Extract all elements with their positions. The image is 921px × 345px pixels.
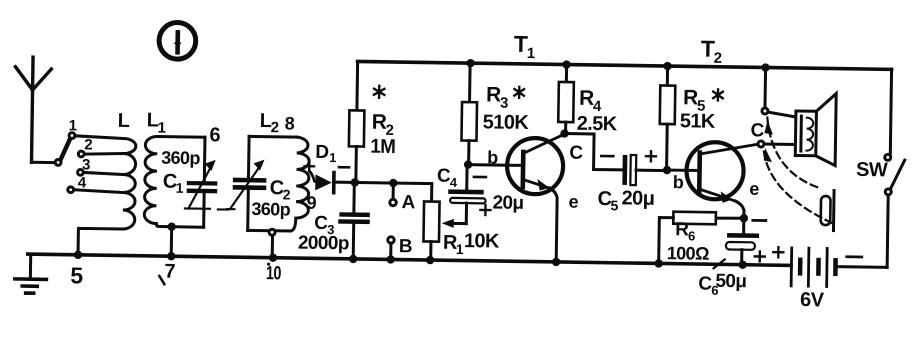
wire speaker branch xyxy=(758,63,797,147)
svg-text:2: 2 xyxy=(271,119,279,136)
minus mark (C4) xyxy=(474,176,486,179)
switch S1 pole contact xyxy=(55,159,61,165)
capacitor C5 xyxy=(622,155,667,186)
svg-text:5: 5 xyxy=(70,262,83,288)
figure number circle 1 xyxy=(159,22,196,59)
svg-text:3: 3 xyxy=(500,95,508,112)
plus mark (D1) xyxy=(304,161,314,171)
plus mark (C4) xyxy=(480,205,490,215)
node 10 xyxy=(269,253,278,262)
svg-text:51K: 51K xyxy=(680,110,716,133)
svg-text:1: 1 xyxy=(456,241,464,257)
svg-text:510K: 510K xyxy=(483,111,530,134)
svg-text:100Ω: 100Ω xyxy=(667,243,710,264)
switch S1 contact 4 xyxy=(68,187,74,193)
resistor R2 xyxy=(348,61,365,182)
wire C2 L2 bottom xyxy=(248,229,290,233)
plus mark (battery) xyxy=(773,247,783,257)
svg-text:D: D xyxy=(315,142,328,163)
switch SW xyxy=(883,69,906,267)
switch S1 contact 1 xyxy=(69,133,75,139)
svg-text:b: b xyxy=(487,147,498,167)
wire L1 top xyxy=(157,135,204,139)
wire C2 L2 top xyxy=(249,135,297,139)
minus mark (C6) xyxy=(753,219,766,222)
wire tap 1 xyxy=(75,136,124,139)
svg-text:9: 9 xyxy=(306,193,316,213)
wire tap 2 xyxy=(84,153,124,155)
svg-text:2.5K: 2.5K xyxy=(577,113,618,136)
ground symbol xyxy=(15,254,47,293)
svg-text:20μ: 20μ xyxy=(492,192,523,213)
coil L2 xyxy=(290,137,309,231)
svg-text:R: R xyxy=(372,111,387,134)
capacitor C1 variable xyxy=(185,159,218,208)
ganged capacitor dashed link xyxy=(218,208,228,210)
svg-text:SW: SW xyxy=(856,159,888,181)
capacitor C4 xyxy=(448,164,486,224)
wire to node 7 xyxy=(170,227,173,256)
svg-text:e: e xyxy=(749,179,759,199)
wire L1 bottom xyxy=(156,223,204,227)
svg-text:50μ: 50μ xyxy=(715,271,746,292)
plus mark (C5) xyxy=(646,151,656,161)
svg-text:R: R xyxy=(683,86,698,109)
resistor R6 xyxy=(654,211,744,269)
terminal circle on bottom wire xyxy=(269,229,275,235)
svg-text:6: 6 xyxy=(688,228,695,243)
earphone xyxy=(821,190,834,230)
minus mark (D1) xyxy=(339,166,349,169)
plus mark (C6) xyxy=(755,251,765,261)
transistor T2 xyxy=(686,142,758,223)
wire base T2 xyxy=(667,169,698,172)
wire L1 right side lower xyxy=(202,193,206,227)
svg-text:C: C xyxy=(569,143,583,164)
coil L1 xyxy=(144,136,157,223)
svg-text:B: B xyxy=(399,236,412,257)
capacitor C2 variable xyxy=(227,159,267,210)
svg-text:2: 2 xyxy=(714,50,722,67)
capacitor C6 xyxy=(726,218,760,269)
svg-text:A: A xyxy=(401,192,415,213)
svg-text:8: 8 xyxy=(285,113,295,133)
diode D1 xyxy=(315,172,334,192)
svg-text:2000p: 2000p xyxy=(298,233,349,255)
svg-text:1: 1 xyxy=(527,45,535,62)
resistor R5 xyxy=(659,62,676,175)
dashed earphone connection arrows xyxy=(763,118,837,225)
svg-text:1M: 1M xyxy=(370,136,395,158)
wire detector node xyxy=(336,182,432,183)
resistor R1 potentiometer xyxy=(423,183,440,264)
capacitor C3 xyxy=(338,182,371,263)
speaker LS xyxy=(795,93,836,166)
minus mark (C5) xyxy=(601,155,613,158)
wire L bottom to node 5 xyxy=(78,228,123,253)
transistor T1 xyxy=(506,133,565,266)
switch S1 contact 3 xyxy=(78,169,84,175)
wiper arrow (R1) xyxy=(442,219,467,228)
wire collector T1 to C5 xyxy=(564,134,623,170)
svg-text:7: 7 xyxy=(164,261,175,283)
switch S1 blade xyxy=(61,138,71,159)
svg-text:20μ: 20μ xyxy=(621,187,654,209)
svg-text:R: R xyxy=(579,87,594,110)
svg-text:L: L xyxy=(118,110,130,132)
resistor R4 xyxy=(558,60,574,138)
asterisk (R5) xyxy=(713,89,723,100)
wire L1 right side upper xyxy=(203,137,207,181)
svg-text:10K: 10K xyxy=(464,230,500,253)
svg-text:1: 1 xyxy=(176,180,184,196)
svg-text:6V: 6V xyxy=(800,289,825,311)
battery 6V xyxy=(791,248,887,287)
svg-text:1: 1 xyxy=(69,117,77,134)
wire tap 3 xyxy=(83,172,123,174)
svg-text:1: 1 xyxy=(329,150,336,165)
coil L xyxy=(123,139,136,230)
node 7 xyxy=(167,252,176,261)
svg-text:e: e xyxy=(568,192,578,212)
svg-text:1: 1 xyxy=(157,120,165,137)
node A xyxy=(390,183,416,213)
resistor R3 xyxy=(461,59,478,169)
antenna xyxy=(14,57,52,163)
asterisk (R2) xyxy=(374,86,385,98)
wire base T1 xyxy=(468,163,521,167)
svg-text:R: R xyxy=(486,83,501,106)
node B xyxy=(386,236,412,264)
wire C2 left lower xyxy=(246,189,250,230)
svg-text:2: 2 xyxy=(84,136,92,153)
stray tick on rail xyxy=(714,259,725,268)
svg-text:C: C xyxy=(750,120,764,141)
wire antenna lead xyxy=(31,161,54,164)
svg-text:360p: 360p xyxy=(251,199,291,220)
svg-text:5: 5 xyxy=(610,197,618,213)
wire L2 tap to diode xyxy=(309,171,316,182)
svg-text:b: b xyxy=(673,172,684,192)
asterisk (R3) xyxy=(514,87,524,98)
wire to node 10 xyxy=(271,235,274,257)
svg-text:10: 10 xyxy=(266,263,281,284)
node junction detector xyxy=(351,178,360,187)
svg-text:6: 6 xyxy=(209,124,220,146)
node 5 xyxy=(74,251,83,260)
wire C2 left upper xyxy=(247,136,251,177)
switch S1 contact 2 xyxy=(78,151,84,157)
svg-text:360p: 360p xyxy=(161,148,201,169)
bottom ground rail xyxy=(28,254,791,265)
wire tap 4 xyxy=(74,190,124,193)
node junction L1 bottom xyxy=(167,222,176,231)
top supply rail xyxy=(358,61,892,69)
minus mark (battery) xyxy=(847,255,862,258)
node junction A stem xyxy=(389,179,398,188)
